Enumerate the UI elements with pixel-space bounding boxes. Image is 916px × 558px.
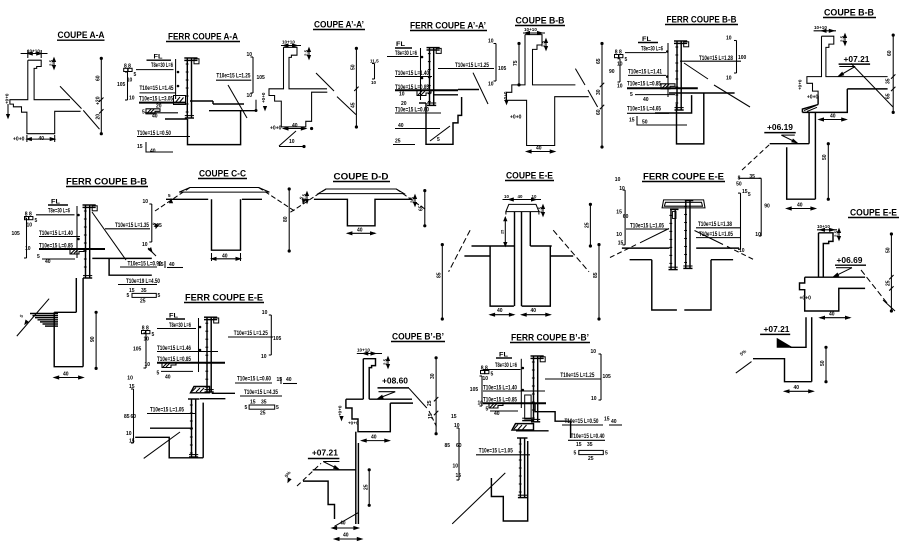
svg-text:40: 40 [63,372,69,378]
svg-text:60: 60 [596,109,602,115]
svg-text:2,5: 2,5 [304,49,309,56]
svg-text:+0+0: +0+0 [261,92,266,103]
svg-text:T8e=30 L=6: T8e=30 L=6 [641,46,663,53]
svg-text:T10e=15 L=1.05: T10e=15 L=1.05 [150,407,184,414]
svg-text:15: 15 [616,210,622,216]
svg-text:10: 10 [371,80,377,85]
svg-text:15: 15 [629,118,635,124]
svg-text:T10e=15 L=4.65: T10e=15 L=4.65 [627,106,661,113]
svg-text:10: 10 [615,177,621,183]
svg-text:40: 40 [518,194,523,199]
svg-text:50: 50 [820,360,826,366]
svg-text:105: 105 [12,231,21,237]
svg-text:+06.19: +06.19 [767,123,794,132]
svg-text:10: 10 [739,248,745,254]
svg-text:60: 60 [456,443,462,449]
svg-text:5: 5 [37,254,40,260]
svg-text:5: 5 [134,72,137,78]
svg-text:15: 15 [428,413,434,419]
svg-text:COUPE B-B: COUPE B-B [516,16,565,26]
svg-text:+0+0: +0+0 [800,296,812,302]
svg-text:85: 85 [124,414,130,420]
svg-text:10: 10 [504,194,509,199]
svg-text:FERR COUPE E-E: FERR COUPE E-E [643,172,724,182]
svg-text:T10e=15 L=1.25: T10e=15 L=1.25 [216,73,250,80]
svg-text:COUPE A’-A’: COUPE A’-A’ [314,20,364,30]
svg-text:65: 65 [886,93,892,99]
svg-text:FERR COUPE A-A: FERR COUPE A-A [168,32,238,42]
svg-text:+0+0: +0+0 [807,95,819,101]
svg-text:10: 10 [591,349,597,355]
svg-text:2,5: 2,5 [302,193,307,200]
svg-text:10: 10 [488,39,494,45]
svg-text:35: 35 [886,78,892,84]
svg-text:10: 10 [619,186,625,192]
svg-text:5: 5 [245,405,248,411]
svg-text:10: 10 [143,199,149,205]
svg-text:85: 85 [593,272,599,278]
svg-text:T8e=30 L=6: T8e=30 L=6 [48,208,70,215]
svg-text:+0+0: +0+0 [798,79,803,90]
svg-text:40: 40 [497,308,503,314]
svg-text:5: 5 [142,110,145,116]
svg-text:T10e=15 L=0.60: T10e=15 L=0.60 [237,376,271,383]
svg-text:+06.69: +06.69 [837,256,864,265]
svg-text:T10e=15 L=1.25: T10e=15 L=1.25 [560,372,594,379]
svg-text:T10e=15 L=0.40: T10e=15 L=0.40 [571,433,605,440]
svg-text:50: 50 [822,154,828,160]
svg-text:FERR COUPE A’-A’: FERR COUPE A’-A’ [410,21,486,31]
svg-text:+0+0: +0+0 [270,126,282,132]
svg-text:+0+0: +0+0 [13,137,25,143]
svg-text:30: 30 [596,89,602,95]
svg-text:5: 5 [574,451,577,457]
svg-text:+07.21: +07.21 [764,325,791,334]
svg-text:5: 5 [625,57,628,63]
svg-text:40: 40 [343,533,349,539]
svg-text:T10e=15 L=0.90: T10e=15 L=0.90 [128,261,162,268]
svg-text:10+10: 10+10 [817,224,830,229]
svg-text:COUPE B’-B’: COUPE B’-B’ [392,332,444,342]
svg-text:10: 10 [127,376,133,382]
svg-text:10: 10 [399,92,405,98]
svg-text:5: 5 [168,193,171,198]
svg-text:T10e=15 L=1.40: T10e=15 L=1.40 [395,70,429,77]
svg-text:T8e=30 L=6: T8e=30 L=6 [151,62,173,69]
svg-text:10: 10 [617,84,623,90]
svg-text:T10e=15 L=0.60: T10e=15 L=0.60 [395,107,429,114]
svg-text:40: 40 [292,123,298,129]
svg-text:90: 90 [764,204,770,210]
svg-text:COUPE E-E: COUPE E-E [850,208,897,218]
svg-text:5: 5 [605,451,608,457]
svg-text:10: 10 [726,76,732,82]
svg-text:10: 10 [142,242,148,248]
svg-text:30: 30 [430,373,436,379]
svg-text:T10e=15 L=4.35: T10e=15 L=4.35 [244,389,278,396]
svg-text:25: 25 [585,222,591,228]
svg-text:2,5: 2,5 [834,230,839,237]
svg-text:25: 25 [395,139,401,145]
svg-text:T10e=15 L=0.85: T10e=15 L=0.85 [627,81,661,88]
svg-text:COUPE A-A: COUPE A-A [58,30,105,40]
svg-text:15: 15 [129,439,135,445]
svg-text:10: 10 [27,223,33,229]
svg-text:60: 60 [887,50,893,56]
svg-text:+07.21: +07.21 [844,55,871,64]
svg-text:90: 90 [90,336,96,342]
svg-text:FERR COUPE B-B: FERR COUPE B-B [667,15,737,25]
svg-text:60: 60 [131,414,137,420]
svg-text:40: 40 [152,114,158,120]
svg-text:8 8: 8 8 [142,326,149,332]
svg-text:10: 10 [247,93,253,99]
svg-text:T10e=15 L=3.05: T10e=15 L=3.05 [139,96,173,103]
svg-text:10+10: 10+10 [814,25,827,30]
svg-text:40: 40 [829,312,835,318]
svg-text:40: 40 [45,259,51,265]
svg-text:25: 25 [140,299,146,305]
svg-text:20: 20 [96,114,102,120]
svg-text:40: 40 [531,308,537,314]
svg-text:15: 15 [456,473,462,479]
svg-text:40: 40 [371,435,377,441]
svg-text:5: 5 [276,405,279,411]
svg-text:10: 10 [591,396,597,402]
svg-text:5%: 5% [739,349,747,357]
svg-text:10: 10 [488,82,494,88]
svg-text:100: 100 [738,55,747,61]
svg-text:COUPE E-E: COUPE E-E [506,171,553,181]
svg-text:105: 105 [498,66,507,72]
svg-text:5: 5 [748,192,751,198]
svg-text:10: 10 [261,354,267,360]
svg-text:10: 10 [262,310,268,316]
svg-text:11,5: 11,5 [370,59,379,64]
svg-text:10: 10 [453,464,459,470]
svg-text:10: 10 [483,376,489,382]
svg-text:2,5: 2,5 [49,59,54,66]
svg-text:40: 40 [494,411,500,417]
svg-text:T8e=30 L=6: T8e=30 L=6 [495,362,517,369]
svg-text:40: 40 [830,114,836,120]
svg-text:80: 80 [283,216,289,222]
svg-text:+20: +20 [96,96,102,105]
svg-text:35: 35 [749,174,755,180]
svg-text:5: 5 [437,137,440,143]
svg-text:T8e=30 L=6: T8e=30 L=6 [395,50,417,57]
svg-text:10+10: 10+10 [282,40,295,45]
svg-text:T10e=15 L=1.45: T10e=15 L=1.45 [140,85,174,92]
svg-text:75: 75 [513,60,519,66]
svg-text:15: 15 [158,262,164,268]
svg-text:5: 5 [157,371,160,377]
svg-text:40: 40 [357,228,363,234]
svg-text:40: 40 [286,377,292,383]
svg-text:2,5: 2,5 [541,40,546,47]
svg-text:10: 10 [145,362,151,368]
svg-text:COUPE C-C: COUPE C-C [199,169,246,179]
svg-text:T10e=15 L=0.50: T10e=15 L=0.50 [137,130,171,137]
svg-text:5: 5 [152,332,155,338]
svg-text:2,5: 2,5 [840,35,845,42]
svg-text:+0+0: +0+0 [338,405,343,416]
svg-text:FERR COUPE E-E: FERR COUPE E-E [185,293,263,303]
svg-text:T10e=15 L=1.40: T10e=15 L=1.40 [39,230,73,237]
svg-text:10: 10 [755,232,761,238]
svg-text:105: 105 [257,75,266,81]
svg-text:25: 25 [886,280,892,286]
svg-text:105: 105 [117,82,126,88]
svg-text:25: 25 [364,484,370,490]
svg-text:+0+0: +0+0 [348,421,359,426]
svg-text:COUPE D-D: COUPE D-D [334,172,390,182]
svg-text:40: 40 [797,203,803,209]
svg-text:8 8: 8 8 [25,212,32,218]
svg-text:15: 15 [618,241,624,247]
svg-text:25: 25 [427,400,433,406]
svg-text:85: 85 [445,443,451,449]
svg-text:10+10: 10+10 [524,27,537,32]
svg-text:T10e=15 L=1.05: T10e=15 L=1.05 [630,223,664,230]
svg-text:5: 5 [158,293,161,299]
svg-text:T10e=15 L=1.46: T10e=15 L=1.46 [157,345,191,352]
svg-text:15: 15 [137,144,143,150]
svg-text:10: 10 [126,431,132,437]
svg-text:2,5: 2,5 [410,196,415,203]
svg-text:40: 40 [536,146,542,152]
svg-text:10: 10 [25,246,31,252]
svg-text:90: 90 [609,69,615,75]
svg-text:T10e=15 L=1.38: T10e=15 L=1.38 [698,221,732,228]
svg-text:105: 105 [470,387,479,393]
svg-text:8 8: 8 8 [124,64,131,70]
svg-text:T10e=15 L=1.05: T10e=15 L=1.05 [479,448,513,455]
svg-text:+07.21: +07.21 [312,449,339,458]
svg-text:105: 105 [273,336,282,342]
svg-text:65: 65 [419,205,425,211]
svg-text:5: 5 [127,293,130,299]
svg-text:8 8: 8 8 [615,50,622,56]
svg-text:65: 65 [596,58,602,64]
svg-text:T10e=15 L=1.40: T10e=15 L=1.40 [483,385,517,392]
svg-text:40: 40 [643,97,649,103]
svg-text:T10e=15 L=1.25: T10e=15 L=1.25 [234,330,268,337]
svg-text:5: 5 [630,92,633,98]
svg-text:40: 40 [611,419,617,425]
svg-text:T10e=15 L=1.05: T10e=15 L=1.05 [699,231,733,238]
svg-text:10: 10 [289,139,295,145]
svg-text:10+10: 10+10 [27,49,40,54]
svg-text:8 8: 8 8 [481,366,488,372]
svg-text:15: 15 [604,417,610,423]
svg-text:COUPE B-B: COUPE B-B [824,8,874,18]
svg-text:15: 15 [576,442,582,448]
svg-text:10: 10 [532,194,537,199]
svg-text:25: 25 [588,456,594,462]
svg-text:40: 40 [39,136,45,142]
svg-text:5: 5 [491,372,494,378]
svg-text:50: 50 [736,182,742,188]
svg-text:FL: FL [396,42,405,48]
svg-text:60: 60 [623,214,629,220]
svg-text:50: 50 [886,247,892,253]
svg-text:T10e=15 L=1.25: T10e=15 L=1.25 [455,62,489,69]
svg-text:10: 10 [726,36,732,42]
svg-text:10: 10 [129,96,135,102]
svg-text:10+10: 10+10 [357,348,370,353]
svg-text:+0+0: +0+0 [5,93,10,104]
svg-text:85: 85 [437,272,443,278]
svg-text:45: 45 [351,102,357,108]
svg-text:T10e=19 L=4.50: T10e=19 L=4.50 [126,278,160,285]
svg-text:15: 15 [451,414,457,420]
svg-text:5%: 5% [284,470,292,478]
svg-text:+0+0: +0+0 [510,115,522,121]
svg-text:2,5: 2,5 [538,206,543,213]
svg-text:105: 105 [133,347,142,353]
svg-text:T8e=30 L=6: T8e=30 L=6 [169,322,191,329]
svg-text:5: 5 [19,313,25,318]
svg-text:60: 60 [96,75,102,81]
svg-text:2,5: 2,5 [383,358,388,365]
svg-text:35: 35 [587,442,593,448]
svg-text:T10e=15 L=1.41: T10e=15 L=1.41 [628,69,662,76]
svg-text:5: 5 [35,218,38,224]
svg-text:10: 10 [616,232,622,238]
svg-text:40: 40 [340,521,346,527]
svg-text:25: 25 [260,411,266,417]
svg-text:40: 40 [794,385,800,391]
svg-text:T10e=15 L=1.35: T10e=15 L=1.35 [115,222,149,229]
svg-text:105: 105 [603,374,612,380]
svg-text:FERR COUPE B-B: FERR COUPE B-B [66,177,148,187]
svg-text:40: 40 [165,375,171,381]
svg-text:25: 25 [501,230,505,234]
svg-text:FERR COUPE B’-B’: FERR COUPE B’-B’ [511,333,589,343]
svg-text:50: 50 [351,64,357,70]
svg-text:+08.60: +08.60 [382,377,409,386]
svg-text:5: 5 [486,407,489,413]
